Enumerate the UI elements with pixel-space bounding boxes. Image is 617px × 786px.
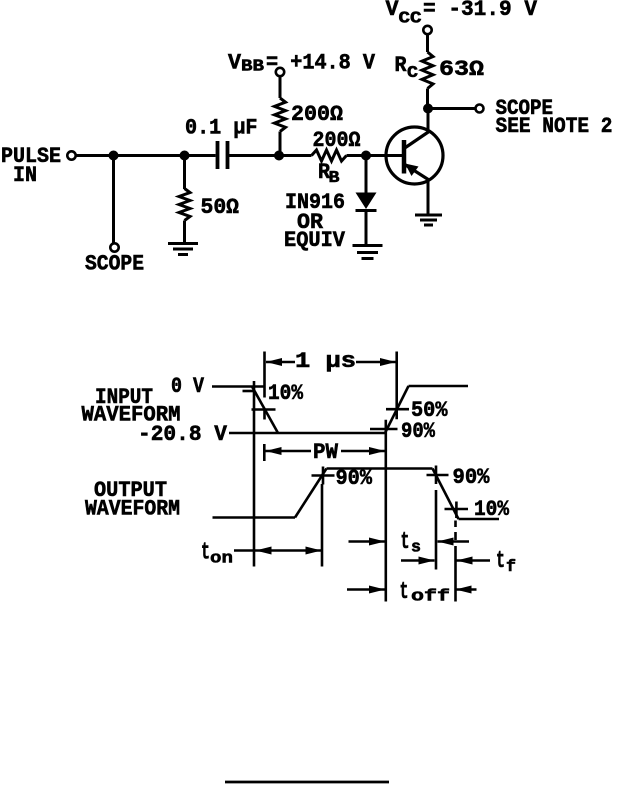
wire RB to transistor base	[347, 154, 405, 157]
wire output waveform bottom right level	[459, 518, 500, 521]
resistor 50 ohm	[179, 189, 190, 221]
svg-text:t: t	[496, 548, 505, 575]
svg-text:EQUIV: EQUIV	[284, 228, 346, 253]
node: 10% label input	[268, 381, 304, 406]
svg-text:C: C	[407, 64, 418, 83]
svg-text:= +14.8 V: = +14.8 V	[266, 51, 376, 76]
node: 90% label output left	[336, 466, 373, 491]
node: OUTPUT WAVEFORM label	[85, 478, 180, 522]
node: 10% tick output falling	[445, 502, 469, 519]
dimension 1 us	[266, 361, 396, 364]
terminal: VBB supply	[276, 68, 284, 76]
transistor Q1 emitter arrow (PNP)	[405, 164, 419, 177]
wire extension t_on left (long)	[253, 381, 256, 567]
node: SCOPE SEE NOTE 2 label	[496, 96, 613, 139]
svg-text:f: f	[506, 558, 516, 577]
svg-text:0 V: 0 V	[171, 374, 205, 399]
svg-text:SCOPE: SCOPE	[85, 252, 144, 277]
svg-text:on: on	[210, 550, 233, 569]
node: 90% tick output falling	[427, 466, 449, 485]
svg-text:90%: 90%	[401, 419, 436, 444]
wire 50 ohm to ground	[183, 221, 186, 244]
terminal: scope right	[476, 105, 484, 113]
svg-text:SEE NOTE 2: SEE NOTE 2	[496, 114, 613, 139]
wire extension output falling 10% solid	[454, 546, 457, 602]
wire extension line 1us left	[263, 352, 266, 420]
wire emitter down to ground	[427, 180, 430, 215]
junction node E collector	[423, 104, 433, 114]
svg-text:t: t	[401, 529, 410, 556]
node: 50 ohm value label	[201, 195, 240, 220]
node: RC reference label	[395, 53, 419, 83]
svg-text:= -31.9 V: = -31.9 V	[423, 0, 538, 22]
node: RB reference label	[318, 160, 340, 188]
dimension t_s	[349, 540, 470, 543]
wire extension line 1us right	[395, 352, 398, 420]
wire node E to scope terminal	[428, 107, 476, 110]
svg-text:t: t	[201, 540, 210, 567]
junction node C	[274, 151, 284, 161]
svg-text:90%: 90%	[336, 466, 373, 491]
wire input waveform falling edge	[252, 387, 278, 434]
node: t_s label	[401, 529, 422, 558]
wire 0V leader line	[212, 385, 265, 388]
svg-text:B: B	[329, 169, 340, 188]
svg-text:0.1 μF: 0.1 μF	[185, 116, 258, 141]
terminal: pulse input	[67, 151, 75, 159]
svg-text:V: V	[228, 51, 242, 76]
wire node D down to diode	[365, 156, 368, 194]
svg-text:63Ω: 63Ω	[439, 57, 484, 82]
wire output waveform falling edge	[433, 469, 459, 520]
svg-text:V: V	[386, 0, 400, 22]
wire RC bottom to node E	[426, 89, 429, 109]
terminal: scope lower left	[110, 243, 118, 251]
node: 10% label output	[474, 497, 510, 522]
dimension t_f	[401, 559, 490, 562]
node: capacitor value 0.1 uF	[185, 116, 258, 141]
node: 90% tick output rising	[312, 467, 335, 485]
dimension PW	[266, 450, 386, 453]
capacitor C1 0.1uF plates	[218, 141, 228, 169]
svg-text:off: off	[411, 588, 450, 607]
node: VBB = +14.8 V label	[228, 51, 376, 77]
wire main horizontal input line	[77, 154, 216, 157]
node: 50% tick on rising edge	[386, 408, 409, 411]
node: t_on label	[201, 540, 233, 569]
diode D1 IN916	[356, 193, 377, 210]
wire extension center long line	[384, 420, 387, 602]
node: PW label	[313, 440, 339, 465]
svg-text:50Ω: 50Ω	[201, 195, 240, 220]
svg-text:1 μs: 1 μs	[295, 349, 356, 374]
wire output waveform top level	[327, 467, 433, 470]
transistor Q1 collector lead	[404, 132, 429, 149]
node: -20.8 V label	[138, 422, 228, 447]
wire node A down to scope	[112, 156, 115, 244]
svg-text:200Ω: 200Ω	[291, 102, 343, 127]
node: VCC = -31.9 V label	[386, 0, 538, 29]
wire input waveform rising edge	[385, 386, 409, 433]
node: IN916 OR EQUIV label	[284, 190, 346, 253]
svg-text:WAVEFORM: WAVEFORM	[85, 497, 180, 522]
junction node A	[109, 151, 119, 161]
svg-text:90%: 90%	[453, 465, 491, 490]
dimension t_on	[234, 549, 322, 552]
node: t_off label	[400, 579, 451, 607]
node: RB 200 ohm value label	[313, 128, 361, 153]
node: 0 V label	[171, 374, 205, 399]
node: 90% tick on rising edge	[370, 428, 398, 431]
node: SCOPE label lower left	[85, 252, 144, 277]
node: 90% label input	[401, 419, 436, 444]
node: PULSE IN label	[1, 144, 61, 188]
wire input waveform top right level	[409, 385, 469, 388]
wire diode to ground	[365, 211, 368, 246]
resistor RB 200 ohm horizontal	[312, 150, 347, 161]
wire node B down to 50 ohm	[183, 156, 186, 190]
ground below emitter	[415, 215, 442, 225]
wire extension line PW left	[263, 444, 266, 461]
wire extension output falling 10% dashed	[454, 521, 457, 541]
wire input waveform bottom level	[229, 432, 385, 435]
node: INPUT WAVEFORM label	[82, 385, 181, 428]
svg-text:200Ω: 200Ω	[313, 128, 361, 153]
wire capacitor to node C	[229, 154, 312, 157]
wire node C up to 200 ohm resistor	[279, 132, 282, 156]
transistor Q1 body	[386, 127, 443, 184]
svg-text:-20.8 V: -20.8 V	[138, 422, 228, 447]
node: bottom rule line	[225, 781, 389, 784]
node: t_f label	[496, 548, 516, 577]
node: 50% tick on falling edge	[252, 408, 276, 411]
wire 200 ohm up to VBB terminal	[279, 77, 282, 99]
svg-text:IN: IN	[13, 163, 37, 188]
node: 10% tick on falling edge	[243, 390, 255, 393]
dimension t_off	[347, 588, 477, 591]
wire output waveform rising edge	[295, 469, 327, 518]
svg-text:PW: PW	[313, 440, 339, 465]
svg-text:10%: 10%	[474, 497, 510, 522]
transistor Q1 base bar	[402, 140, 407, 174]
junction node D base/diode	[361, 151, 371, 161]
svg-text:BB: BB	[241, 58, 264, 77]
ground below 50 ohm	[168, 244, 198, 255]
junction node B	[180, 151, 190, 161]
node: 200 ohm vertical value label	[291, 102, 343, 127]
node: 63 ohm value label	[439, 57, 484, 82]
svg-text:t: t	[400, 579, 409, 606]
wire output waveform bottom left level	[213, 516, 296, 519]
terminal: VCC supply	[423, 26, 431, 34]
svg-text:CC: CC	[399, 10, 422, 29]
wire collector up to node E	[427, 109, 430, 132]
resistor 200 ohm vertical	[275, 98, 286, 132]
wire extension t_on right	[321, 484, 324, 567]
wire VCC terminal to RC	[426, 34, 429, 52]
node: 50% label input	[411, 398, 448, 423]
node: 90% label output right	[453, 465, 491, 490]
ground below diode	[353, 246, 383, 259]
svg-text:10%: 10%	[268, 381, 304, 406]
wire extension output falling 90%	[435, 490, 438, 570]
svg-text:R: R	[395, 53, 408, 78]
node: 1 us label	[295, 349, 356, 374]
svg-text:s: s	[411, 539, 421, 558]
resistor RC 63 ohm	[422, 52, 433, 89]
transistor Q1 emitter lead	[404, 164, 429, 180]
